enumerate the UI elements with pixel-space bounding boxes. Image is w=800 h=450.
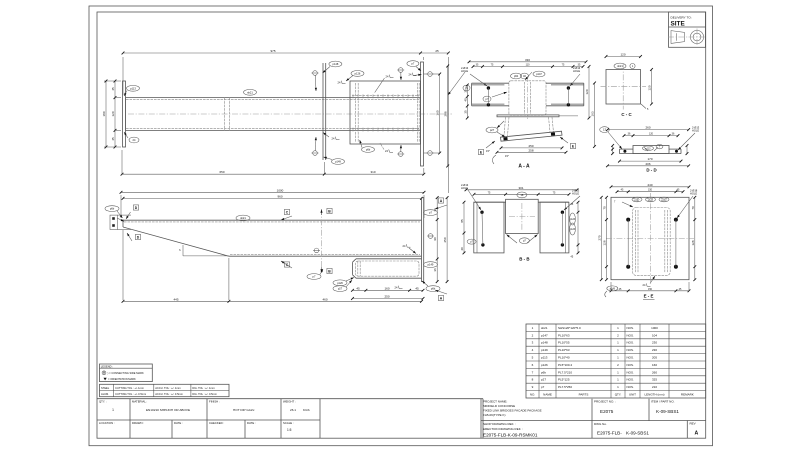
view1 gusset hole marks (353, 94, 418, 131)
svg-text:LEGEND :: LEGEND : (101, 364, 113, 368)
svg-text:230: 230 (652, 341, 657, 345)
view1 gusset plate p6b (350, 81, 421, 144)
view2 taper construction (179, 245, 229, 256)
BB top flange line (474, 201, 569, 203)
view1 hole note right (448, 72, 465, 95)
svg-text:250: 250 (384, 295, 389, 299)
svg-text:26.1: 26.1 (290, 408, 296, 412)
svg-text:DIA. TOL : +/- 1mm: DIA. TOL : +/- 1mm (192, 386, 214, 390)
svg-text:p149: p149 (541, 348, 548, 352)
svg-text:p149: p149 (428, 263, 434, 267)
svg-text:HOLE: HOLE (572, 192, 579, 196)
svg-text:p6b: p6b (366, 148, 371, 152)
svg-text:p148: p148 (333, 62, 339, 66)
svg-text:p147: p147 (541, 333, 548, 337)
svg-text:260: 260 (652, 370, 657, 374)
svg-text:DWG No.: DWG No. (594, 422, 607, 426)
svg-text:p7: p7 (541, 385, 545, 389)
AA bottom dims (486, 144, 567, 164)
svg-text:REMARK: REMARK (681, 393, 694, 397)
svg-text:260: 260 (645, 126, 650, 130)
AA legs (504, 117, 554, 136)
svg-text:1000: 1000 (277, 188, 284, 192)
svg-text:STEEL: STEEL (101, 386, 110, 390)
view2 C markers (281, 209, 292, 268)
BB caption (519, 256, 529, 261)
svg-text:A: A (695, 431, 699, 437)
DD bottom dims (606, 157, 690, 167)
svg-text:208: 208 (444, 111, 448, 116)
svg-text:p126: p126 (570, 229, 576, 231)
svg-text:90: 90 (433, 237, 437, 241)
svg-text:EN10210 S355JOH OR ABOVE: EN10210 S355JOH OR ABOVE (146, 408, 190, 412)
svg-text:205: 205 (652, 356, 657, 360)
svg-text:WEIGHT :: WEIGHT : (283, 400, 296, 404)
svg-text:p113: p113 (130, 86, 136, 90)
svg-text:128: 128 (603, 240, 607, 245)
svg-text:120: 120 (620, 53, 625, 57)
view2 outline (123, 220, 422, 257)
EE top labels (614, 197, 669, 207)
DD labels (600, 125, 700, 150)
svg-text:160: 160 (436, 110, 440, 115)
svg-text:975: 975 (270, 49, 275, 53)
svg-text:45: 45 (415, 286, 419, 290)
svg-text:NOS.: NOS. (627, 341, 635, 345)
BB top dim (465, 186, 579, 196)
svg-text:250: 250 (443, 237, 447, 242)
CC labels (614, 63, 649, 111)
svg-text:SCALE :: SCALE : (283, 421, 294, 425)
svg-text:45: 45 (111, 87, 115, 91)
svg-text:PL10*40: PL10*40 (558, 356, 570, 360)
EE top hole rows (633, 199, 667, 201)
svg-text:K-09-SBS1: K-09-SBS1 (626, 431, 649, 436)
svg-text:PL7.5*250: PL7.5*250 (558, 385, 572, 389)
svg-text:K-09-SBS1: K-09-SBS1 (656, 409, 679, 414)
view1 beam centerline (128, 113, 452, 115)
svg-text:SHS120*120*5.0: SHS120*120*5.0 (558, 326, 581, 330)
BB right small dims (571, 203, 574, 259)
svg-text:ERECTION DRAWING REF. :: ERECTION DRAWING REF. : (483, 427, 523, 431)
svg-text:NOS.: NOS. (627, 326, 635, 330)
svg-text:CUTTING TOL : +/- 1mm: CUTTING TOL : +/- 1mm (115, 386, 144, 390)
svg-text:C - C: C - C (621, 112, 632, 117)
svg-text:325: 325 (652, 378, 657, 382)
svg-text:NO.: NO. (530, 393, 536, 397)
svg-text:ITEM / PART NO.: ITEM / PART NO. (651, 400, 675, 404)
DD plate (620, 146, 682, 154)
svg-text:p147: p147 (648, 200, 654, 202)
view2 top dim 1000 (120, 188, 426, 218)
view1 fin plate p148 (323, 63, 326, 160)
svg-text:150: 150 (648, 189, 653, 192)
AA right plate (546, 83, 584, 106)
svg-text:120: 120 (648, 85, 652, 90)
svg-text:B - B: B - B (519, 256, 529, 261)
svg-text:CUTTING TOL : +/- 0.5mm: CUTTING TOL : +/- 0.5mm (115, 392, 146, 396)
svg-text:330: 330 (525, 58, 530, 62)
svg-text:36: 36 (433, 268, 437, 272)
svg-text:120: 120 (111, 111, 115, 116)
AA side dims (463, 65, 596, 148)
EE left dims (597, 196, 608, 281)
BB shs square (506, 199, 539, 233)
AA top dims (468, 58, 588, 68)
svg-text:SHOP DRAWING REF. :: SHOP DRAWING REF. : (483, 422, 516, 426)
svg-text:960: 960 (277, 194, 282, 198)
svg-text:p6b: p6b (431, 287, 436, 291)
svg-text:240: 240 (647, 183, 652, 187)
svg-text:CHECKED :: CHECKED : (209, 421, 224, 425)
view1 end plate p7 (421, 62, 424, 166)
svg-text:301: 301 (518, 186, 523, 190)
svg-text:p6b: p6b (514, 74, 519, 78)
view1 bottom dim 650/310 (121, 150, 426, 176)
svg-text:p148: p148 (541, 341, 548, 345)
view2 labels (105, 206, 440, 292)
AA mid labels (463, 85, 507, 137)
deliver-to box (668, 12, 706, 47)
svg-text:NOS.: NOS. (627, 378, 635, 382)
svg-text:25: 25 (435, 49, 439, 53)
svg-text:MATERIAL :: MATERIAL : (132, 400, 147, 404)
AA E markers (478, 137, 575, 155)
BB left plate (474, 202, 504, 253)
svg-text:sb21: sb21 (617, 64, 623, 68)
svg-text:E2075-FLB-K-09-RSMK01: E2075-FLB-K-09-RSMK01 (483, 432, 538, 437)
svg-text:ALUM.: ALUM. (101, 392, 109, 396)
svg-text:15°: 15° (486, 149, 490, 153)
svg-text:LENGTH (mm): LENGTH (mm) (645, 393, 665, 397)
view1 beam wall hidden lines (126, 99, 420, 128)
DD side dims (611, 144, 688, 155)
CC square (606, 70, 641, 105)
EE outer rect (611, 197, 689, 279)
svg-text:NOS.: NOS. (627, 385, 635, 389)
parts table (526, 324, 706, 398)
svg-text:p113: p113 (541, 356, 548, 360)
svg-text:p6b: p6b (541, 370, 546, 374)
title block left (97, 399, 483, 438)
svg-text:230: 230 (652, 348, 657, 352)
svg-text:sb21: sb21 (247, 90, 253, 94)
view2 B-B cut line (320, 208, 332, 273)
view2 bottom dim overall (122, 230, 423, 303)
svg-text:sb21: sb21 (541, 326, 548, 330)
project block right (481, 399, 706, 438)
AA inclined bar (501, 131, 563, 141)
view1 splice hidden lines (225, 98, 230, 131)
svg-text:250: 250 (528, 144, 533, 148)
svg-text:p27: p27 (541, 378, 546, 382)
EE top dims (610, 183, 691, 193)
svg-text:p6b: p6b (110, 207, 115, 211)
svg-text:PL10*63: PL10*63 (558, 333, 570, 337)
view2 end plate p7 edge (422, 198, 424, 282)
svg-text:35: 35 (463, 89, 467, 93)
AA top labels (511, 71, 546, 80)
AA shs dashed (509, 76, 546, 119)
svg-text:70: 70 (603, 206, 607, 210)
svg-text:85: 85 (460, 219, 464, 223)
svg-text:35: 35 (463, 110, 467, 114)
svg-text:NOS.: NOS. (627, 363, 635, 367)
view2 A markers (435, 198, 447, 301)
svg-text:210: 210 (652, 385, 657, 389)
svg-text:40: 40 (460, 247, 464, 251)
svg-text:PROJECT NO. :: PROJECT NO. : (594, 400, 616, 404)
view2 right dims (433, 196, 448, 283)
svg-text:45: 45 (111, 137, 115, 141)
svg-text:ACCU. TOL : +/- 0.5mm: ACCU. TOL : +/- 0.5mm (155, 392, 183, 396)
svg-text:NOS.: NOS. (627, 333, 635, 337)
EE centerlines (606, 193, 694, 284)
view1 left dim 45/120/45 (102, 80, 116, 149)
svg-text:110: 110 (526, 64, 530, 67)
sheet outer border (89, 6, 713, 446)
svg-text:A - A: A - A (518, 164, 530, 170)
svg-text:FINISH :: FINISH : (209, 400, 220, 404)
svg-text:p126: p126 (541, 363, 548, 367)
EE hole note (677, 189, 698, 219)
view1 beam outline sb21 (126, 98, 421, 131)
svg-text:) = CONNECTING SIDE MARK: ) = CONNECTING SIDE MARK (108, 371, 145, 375)
view1 weld symbols (312, 68, 405, 157)
svg-text:MIDFIELD CONCORSE: MIDFIELD CONCORSE (483, 404, 515, 408)
svg-text:HOLE: HOLE (692, 128, 699, 132)
svg-text:SITE: SITE (671, 21, 686, 28)
svg-text:40: 40 (463, 98, 467, 102)
view1 labels lower (124, 132, 393, 164)
svg-text:DATE :: DATE : (247, 421, 256, 425)
svg-text:FIXED LINK BRIDGES FACADE PACK: FIXED LINK BRIDGES FACADE PACKAGE (483, 409, 542, 413)
svg-text:45: 45 (356, 286, 360, 290)
svg-text:QTY. :: QTY. : (99, 400, 107, 404)
view1 left dim ext lines (104, 81, 121, 147)
CC caption (621, 112, 632, 117)
svg-text:128: 128 (691, 240, 695, 245)
svg-text:p126: p126 (337, 281, 343, 285)
svg-text:1000: 1000 (651, 326, 658, 330)
BB right plate (540, 202, 569, 253)
CC right dim (648, 68, 653, 105)
BB left dim (460, 201, 579, 255)
view2 hidden edges (124, 222, 420, 255)
svg-text:PL7.5*210: PL7.5*210 (558, 370, 572, 374)
svg-text:460: 460 (322, 297, 327, 301)
view2 top dim 960 (122, 194, 423, 199)
svg-text:PL10*55: PL10*55 (558, 341, 570, 345)
tolerance table (100, 384, 230, 396)
svg-text:PL5*125: PL5*125 (558, 378, 570, 382)
EE bottom dims (610, 282, 691, 292)
view1 flange bolt circles (424, 72, 441, 156)
svg-text:PL10*63: PL10*63 (558, 348, 570, 352)
DD top dims (606, 126, 690, 137)
svg-text:p126: p126 (355, 71, 361, 75)
view1 right dims (436, 65, 449, 168)
svg-text:650: 650 (219, 170, 224, 174)
svg-text:p147: p147 (536, 72, 542, 76)
AA bottom plate (497, 115, 578, 117)
svg-text:NOS.: NOS. (627, 370, 635, 374)
svg-text:p149: p149 (335, 160, 341, 164)
svg-text:150: 150 (648, 288, 653, 291)
svg-text:HOT DIP GALV.: HOT DIP GALV. (233, 408, 255, 412)
svg-text:p27: p27 (338, 287, 343, 291)
svg-text:DATE :: DATE : (174, 421, 183, 425)
svg-text:p149: p149 (610, 288, 616, 290)
svg-text:PROJECT NAME:: PROJECT NAME: (483, 399, 507, 403)
svg-text:UNIT: UNIT (629, 393, 636, 397)
svg-text:FLB-09(TYPE K): FLB-09(TYPE K) (483, 413, 506, 417)
svg-text:120: 120 (585, 89, 589, 94)
svg-text:NAME: NAME (543, 393, 552, 397)
svg-text:KGS: KGS (303, 408, 310, 412)
EE caption (643, 294, 655, 300)
svg-text:ACCU. TOL : +/- 1mm: ACCU. TOL : +/- 1mm (155, 386, 180, 390)
svg-text:15°: 15° (505, 154, 509, 158)
EE bolts (626, 218, 678, 269)
svg-text:206: 206 (645, 162, 650, 166)
DD caption (646, 168, 656, 173)
svg-text:E2075: E2075 (600, 409, 614, 414)
CC centerlines (601, 64, 647, 110)
svg-text:70: 70 (691, 206, 695, 210)
svg-text:HOLE: HOLE (461, 69, 468, 73)
svg-text:D - D: D - D (646, 168, 656, 173)
svg-text:REV: REV (690, 421, 696, 425)
svg-text:160: 160 (652, 363, 657, 367)
svg-text:1: 1 (112, 408, 114, 412)
svg-text:LOCATION :: LOCATION : (99, 421, 115, 425)
svg-text:E - E: E - E (644, 294, 654, 299)
svg-text:p126: p126 (570, 219, 576, 221)
svg-text:180: 180 (102, 111, 106, 116)
svg-text:p27: p27 (490, 128, 495, 132)
svg-text:104: 104 (652, 333, 657, 337)
svg-text:= ORIENTATION MARK: = ORIENTATION MARK (108, 377, 136, 381)
view2 left end weld detail (110, 215, 131, 229)
svg-text:270: 270 (597, 235, 601, 240)
svg-text:sb21: sb21 (240, 216, 246, 220)
EE shs hidden (633, 208, 671, 276)
EE bottom labels (605, 276, 655, 297)
svg-text:445: 445 (173, 297, 178, 301)
svg-text:p113: p113 (646, 148, 652, 150)
view2 bottom plate p7 plan (353, 259, 422, 278)
svg-text:NOS.: NOS. (627, 356, 635, 360)
svg-text:DIA. TOL : +/- 0.5mm: DIA. TOL : +/- 0.5mm (192, 392, 217, 396)
BB hole notes (461, 183, 580, 210)
legend box (100, 364, 153, 382)
EE right dim (691, 196, 696, 281)
BB weld arrows (507, 235, 538, 244)
svg-text:PL5*100.4: PL5*100.4 (558, 363, 572, 367)
svg-text:170: 170 (647, 157, 652, 161)
svg-text:DRAWN :: DRAWN : (132, 421, 144, 425)
svg-text:p147: p147 (635, 200, 641, 202)
sheet inner border (97, 12, 706, 438)
AA hole notes (461, 66, 581, 86)
svg-text:E2075-FLB-: E2075-FLB- (597, 431, 622, 436)
AA caption (518, 164, 530, 170)
svg-text:120: 120 (649, 133, 654, 136)
svg-text:HOLE: HOLE (690, 192, 697, 196)
view2 bottom dims p7 (351, 286, 424, 300)
CC top dim (605, 53, 642, 58)
svg-text:p147: p147 (662, 200, 668, 202)
BB right labels (570, 213, 576, 235)
svg-text:160: 160 (384, 286, 389, 290)
svg-text:163: 163 (591, 111, 595, 116)
view2 D markers (126, 205, 141, 241)
svg-text:NOS.: NOS. (627, 348, 635, 352)
svg-text:HOLE: HOLE (573, 69, 580, 73)
AA left plate (472, 83, 509, 106)
svg-text:QTY.: QTY. (615, 393, 622, 397)
svg-text:PARTS: PARTS (579, 393, 589, 397)
view1 labels upper (124, 61, 422, 96)
view1 left end plate p113 (123, 81, 126, 147)
view1 top dim 975/25 (122, 49, 450, 193)
svg-text:DELIVERY TO:: DELIVERY TO: (671, 16, 692, 20)
svg-text:258: 258 (528, 148, 533, 152)
svg-text:1:5: 1:5 (287, 428, 292, 432)
svg-text:310: 310 (370, 170, 375, 174)
svg-text:HOLE: HOLE (461, 186, 468, 190)
